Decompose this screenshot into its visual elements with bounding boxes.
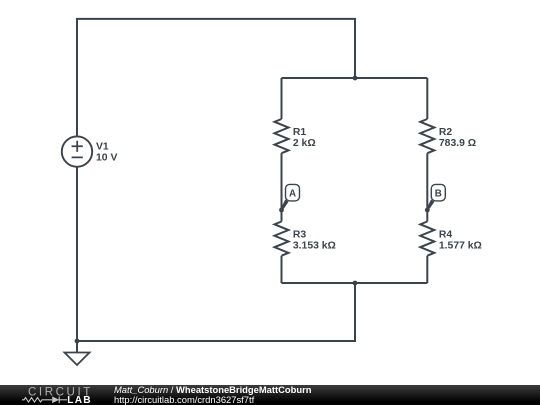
svg-text:3.153 kΩ: 3.153 kΩ	[293, 240, 336, 251]
svg-text:10 V: 10 V	[96, 153, 117, 164]
wire: V1 bottom lead	[76, 167, 78, 341]
node B callout	[425, 184, 445, 212]
footer title	[114, 384, 311, 395]
svg-text:1.577 kΩ: 1.577 kΩ	[439, 240, 482, 251]
footer url	[114, 394, 254, 405]
svg-text:V1: V1	[96, 142, 109, 153]
svg-text:A: A	[289, 189, 296, 200]
junction at bridge top	[353, 76, 358, 81]
wire: R1 to R3 through node A	[281, 153, 283, 221]
wire: R1 top lead	[281, 78, 283, 119]
svg-text:R3: R3	[293, 229, 307, 240]
footer bar	[0, 385, 540, 405]
ground	[65, 353, 90, 366]
node A callout	[279, 184, 299, 212]
svg-text:2 kΩ: 2 kΩ	[293, 138, 316, 149]
junction at bridge bottom	[353, 281, 358, 286]
resistor R2	[420, 119, 434, 153]
resistor R3	[275, 222, 289, 256]
svg-text:B: B	[435, 189, 442, 200]
wire: R4 bottom lead	[426, 256, 428, 283]
voltage source V1	[62, 136, 92, 166]
CircuitLab logo	[0, 384, 110, 405]
svg-text:LAB: LAB	[67, 395, 92, 405]
wire: bridge top rail	[282, 77, 428, 79]
svg-text:783.9 Ω: 783.9 Ω	[439, 138, 476, 149]
resistor R1	[275, 119, 289, 153]
wire: R2 to R4 through node B	[426, 153, 428, 221]
wire: V1 top lead up, across top, down to bridge top	[77, 19, 355, 136]
svg-text:R2: R2	[439, 127, 453, 138]
junction at ground	[75, 339, 80, 344]
wire: R2 top lead	[426, 78, 428, 119]
wire: ground lead	[76, 341, 78, 353]
svg-text:R1: R1	[293, 127, 307, 138]
resistor R4	[420, 222, 434, 256]
svg-text:R4: R4	[439, 229, 453, 240]
wire: bridge bottom down and back to V1	[77, 283, 355, 341]
wire: bridge bottom rail	[282, 282, 428, 284]
wire: R3 bottom lead	[281, 256, 283, 283]
